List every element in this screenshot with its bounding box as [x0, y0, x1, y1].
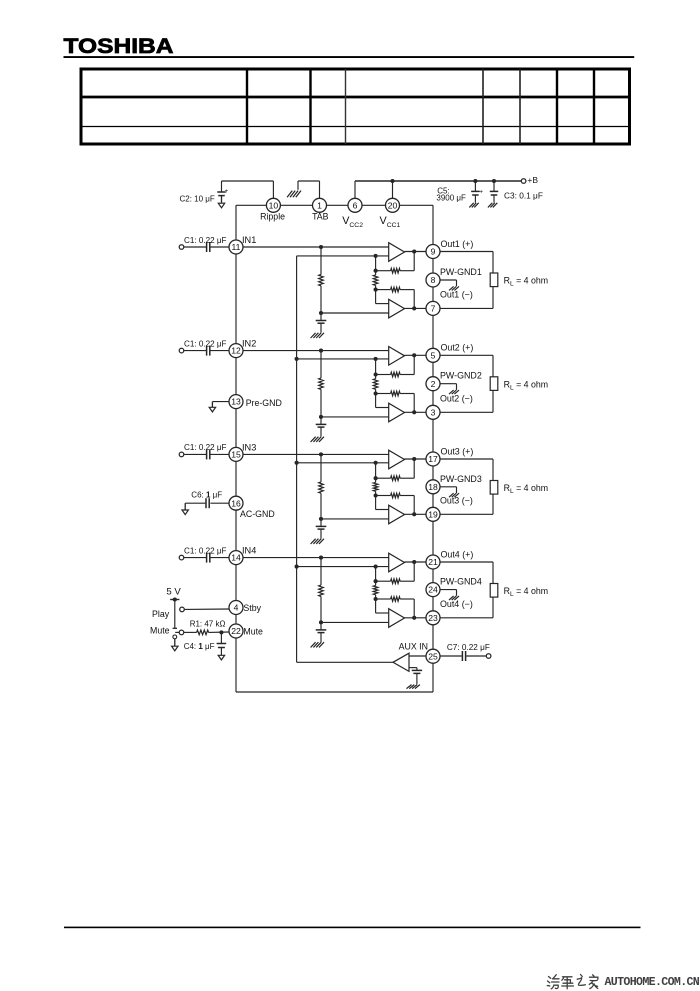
svg-text:C1: 0.22 μF: C1: 0.22 μF [184, 339, 227, 348]
svg-text:PW-GND3: PW-GND3 [440, 474, 482, 484]
svg-text:11: 11 [232, 242, 241, 252]
svg-text:PW-GND4: PW-GND4 [440, 577, 482, 587]
svg-text:20: 20 [388, 200, 398, 210]
svg-text:12: 12 [231, 346, 241, 356]
svg-text:Out1 (−): Out1 (−) [440, 290, 473, 300]
svg-text:IN4: IN4 [242, 546, 256, 556]
svg-text:PW-GND2: PW-GND2 [440, 371, 482, 381]
svg-text:+: + [479, 188, 483, 195]
svg-text:9: 9 [431, 247, 436, 257]
svg-text:Ripple: Ripple [260, 211, 285, 221]
svg-text:Mute: Mute [150, 625, 170, 635]
svg-text:C6: 1 μF: C6: 1 μF [191, 491, 222, 500]
svg-text:Out1 (+): Out1 (+) [441, 239, 474, 249]
svg-text:Out4 (+): Out4 (+) [441, 549, 474, 559]
svg-text:IN3: IN3 [242, 443, 256, 453]
svg-text:TAB: TAB [312, 211, 329, 221]
svg-text:Mute: Mute [243, 627, 263, 637]
svg-text:Out2 (+): Out2 (+) [441, 343, 474, 353]
svg-text:7: 7 [431, 304, 436, 314]
svg-text:4: 4 [234, 603, 239, 613]
svg-text:Pre-GND: Pre-GND [246, 398, 282, 408]
svg-text:3: 3 [431, 407, 436, 417]
svg-text:IN1: IN1 [242, 235, 256, 245]
svg-text:VCC1: VCC1 [380, 215, 401, 229]
svg-text:17: 17 [428, 454, 438, 464]
svg-text:C1: 0.22 μF: C1: 0.22 μF [184, 546, 227, 555]
svg-text:5: 5 [431, 350, 436, 360]
svg-text:PW-GND1: PW-GND1 [440, 267, 482, 277]
svg-text:C4: 1 μF: C4: 1 μF [184, 642, 215, 651]
svg-text:C2: 10 μF: C2: 10 μF [180, 195, 215, 204]
svg-text:25: 25 [428, 651, 438, 661]
svg-text:10: 10 [269, 200, 279, 210]
svg-text:C3: 0.1 μF: C3: 0.1 μF [504, 190, 543, 200]
svg-text:C1: 0.22 μF: C1: 0.22 μF [184, 443, 227, 452]
svg-text:6: 6 [353, 200, 358, 210]
svg-text:Out4 (−): Out4 (−) [440, 599, 473, 609]
svg-text:IN2: IN2 [242, 339, 256, 349]
svg-text:2: 2 [431, 379, 436, 389]
svg-text:RL = 4 ohm: RL = 4 ohm [504, 380, 549, 392]
svg-text:23: 23 [428, 613, 438, 623]
svg-text:18: 18 [428, 482, 438, 492]
svg-text:AC-GND: AC-GND [240, 509, 275, 519]
svg-text:13: 13 [231, 397, 241, 407]
svg-text:+B: +B [527, 175, 538, 185]
svg-text:VCC2: VCC2 [342, 215, 363, 229]
svg-text:C7: 0.22 μF: C7: 0.22 μF [447, 643, 490, 652]
svg-text:C1: 0.22 μF: C1: 0.22 μF [184, 236, 227, 245]
svg-text:Out3 (+): Out3 (+) [441, 446, 474, 456]
svg-text:1: 1 [317, 200, 322, 210]
svg-text:RL = 4 ohm: RL = 4 ohm [504, 276, 549, 288]
svg-text:21: 21 [428, 557, 438, 567]
svg-text:RL = 4 ohm: RL = 4 ohm [504, 586, 549, 598]
svg-text:Out2 (−): Out2 (−) [440, 394, 473, 404]
svg-text:Play: Play [152, 609, 170, 619]
svg-text:8: 8 [431, 275, 436, 285]
svg-text:19: 19 [428, 509, 438, 519]
svg-text:RL = 4 ohm: RL = 4 ohm [504, 483, 549, 495]
svg-text:14: 14 [231, 553, 241, 563]
svg-text:3900 μF: 3900 μF [436, 193, 466, 202]
svg-text:TOSHIBA: TOSHIBA [64, 34, 174, 58]
svg-text:Out3 (−): Out3 (−) [440, 496, 473, 506]
svg-text:16: 16 [231, 498, 241, 508]
svg-text:5 V: 5 V [166, 586, 181, 597]
svg-text:15: 15 [231, 450, 241, 460]
svg-text:AUX IN: AUX IN [399, 641, 428, 651]
svg-text:AUTOHOME.COM.CN: AUTOHOME.COM.CN [605, 976, 700, 989]
svg-text:24: 24 [428, 585, 438, 595]
svg-text:+: + [225, 188, 229, 195]
svg-text:R1: 47 kΩ: R1: 47 kΩ [190, 619, 226, 628]
svg-text:Stby: Stby [243, 603, 261, 613]
svg-text:22: 22 [231, 626, 241, 636]
